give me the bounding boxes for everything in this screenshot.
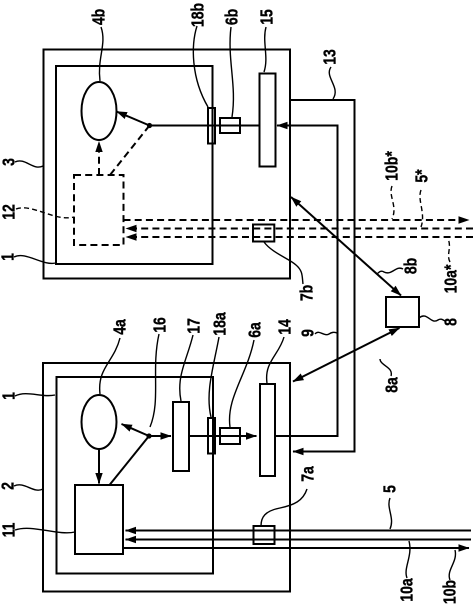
leader 4b [99,27,103,81]
mirror unit 8 [386,297,419,327]
svg-text:18b: 18b [188,3,208,27]
svg-text:9: 9 [298,329,318,337]
leader 9 [315,332,337,334]
leader 8b [377,268,403,274]
element 15 [260,74,276,167]
leader 15 [264,27,266,72]
svg-text:5*: 5* [412,169,432,183]
svg-text:10a*: 10a* [441,264,461,293]
leader 10b* (dashed) [391,186,394,219]
leader 6b [230,27,233,117]
leader 11 [15,528,75,533]
element 7a [254,526,275,544]
leader 6a [229,340,254,427]
dashed beam 10a* [126,236,473,238]
inner box 3 (top module optics) [56,66,213,264]
beam 10b [123,547,469,549]
ellipse 4a [82,395,117,449]
leader 2 [14,485,43,490]
leader 10a* (dashed) [448,239,450,262]
wire 9 (bottom module to element 15) [275,126,338,437]
svg-text:4b: 4b [89,9,109,25]
svg-text:16: 16 [150,317,170,333]
wire junction to 11 [110,436,150,485]
svg-text:7b: 7b [297,285,317,301]
leader 1 (bottom module) [15,394,55,396]
leader 5* (dashed) [420,190,423,227]
leader 13 [329,67,335,99]
beam 10a [126,539,472,541]
element 6b [220,118,240,133]
svg-text:14: 14 [275,319,295,335]
double arrow 8b [291,197,401,296]
leader 1 (top module) [14,256,56,264]
svg-text:5: 5 [380,485,400,493]
svg-text:6a: 6a [245,321,265,337]
svg-text:10b: 10b [440,580,460,604]
svg-text:18a: 18a [210,311,230,335]
svg-text:13: 13 [320,49,340,65]
dashed wire junction to 12 [110,126,150,176]
control unit 12 (dashed box) [74,175,124,245]
svg-text:3: 3 [0,158,19,166]
arrow junction to ellipse 4a [122,424,150,436]
element 18a [208,418,215,454]
element 14 [260,384,275,476]
element 7b [253,225,274,242]
beam 5 [126,530,472,532]
wire 13 (top module to bottom module) [290,100,355,452]
element 17 [173,402,189,471]
housing box 1 (bottom module) [43,363,290,592]
leader 4a [100,338,120,394]
leader 18a [209,337,219,417]
leader 10a [406,541,410,578]
leader 7b [264,242,303,284]
svg-text:15: 15 [257,9,277,25]
leader 16 [150,334,159,427]
leader 10b [449,550,455,580]
dashed beam 5* [126,228,473,230]
leader 8 [419,316,445,321]
housing box 1 (top module) [44,50,291,279]
svg-text:10b*: 10b* [382,151,402,181]
svg-text:11: 11 [0,523,19,538]
double arrow 8a [293,328,400,382]
leader 8a [380,359,391,376]
leader 18b [193,26,208,107]
svg-text:7a: 7a [298,465,318,481]
arrow junction to element 17 [149,435,171,437]
node junction (bottom module) [146,433,151,438]
leader 14 [267,337,284,383]
svg-text:17: 17 [184,318,204,334]
wire optical axis (top module) [150,125,260,127]
svg-text:8b: 8b [401,258,421,274]
element 18b [208,108,215,144]
svg-text:8: 8 [441,318,461,326]
inner box 2 (bottom module optics) [57,377,214,574]
leader 17 [180,335,193,401]
element 6a [220,428,240,444]
dashed arrow 12 to 4b [98,142,100,176]
leader 12 (dashed) [16,208,74,218]
svg-text:6b: 6b [222,9,242,25]
control unit 11 [75,485,123,554]
svg-text:12: 12 [0,204,19,220]
dashed beam 10b* [124,219,470,221]
ellipse 4b [82,82,117,140]
svg-text:8a: 8a [382,376,402,392]
svg-text:10a: 10a [397,577,417,601]
leader 7a [261,489,307,526]
node junction (top module) [147,123,152,128]
svg-text:2: 2 [0,482,18,490]
svg-text:4a: 4a [110,318,130,334]
leader 5 [389,498,392,529]
leader 3 [15,161,43,167]
svg-text:1: 1 [0,392,19,400]
arrow 4a to 11 [98,449,100,484]
wire axis 17 to 14 with arrow [189,435,257,437]
arrow junction to ellipse 4b [117,112,150,126]
svg-text:1: 1 [0,253,18,261]
